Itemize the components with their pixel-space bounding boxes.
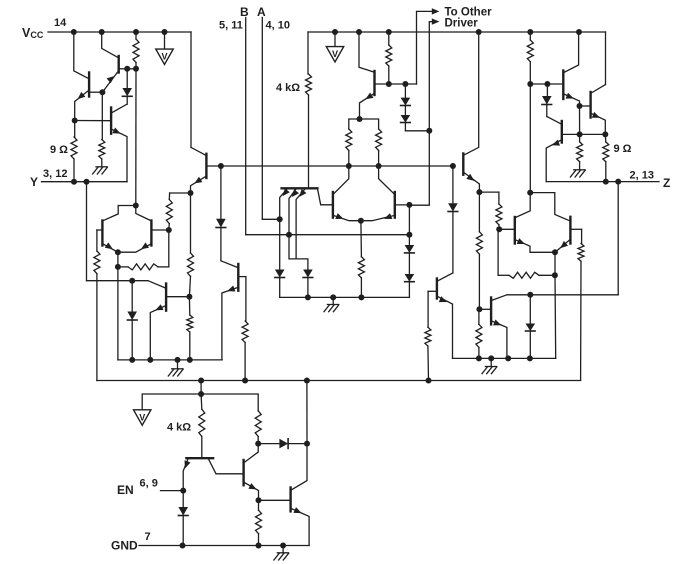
svg-text:4 kΩ: 4 kΩ (167, 422, 191, 434)
wire Y line (42, 181, 128, 183)
wire Q10 e3 (296, 189, 306, 259)
wire Q3 collector (112, 104, 127, 112)
wire Q8 collector (221, 261, 238, 268)
diode D14 (178, 490, 188, 545)
node M28 (527, 355, 533, 361)
wire Q19 emitter (591, 112, 605, 134)
node N2 (99, 89, 105, 95)
transistor Q3 (110, 108, 112, 134)
node M15 (358, 218, 364, 224)
wire Q20 emitter (546, 140, 561, 182)
resistor R4 (94, 230, 100, 381)
wire Q15 emitter (492, 320, 507, 359)
node E4 (256, 497, 262, 503)
node VCC-A (71, 29, 77, 35)
node A (257, 5, 266, 19)
wire R2 down (554, 275, 557, 358)
wire EN line (161, 490, 184, 492)
node Z-B (615, 179, 621, 185)
wire Q16 base (499, 228, 515, 230)
wire Q11 collector (334, 166, 349, 194)
wire Q2 collector (102, 32, 118, 58)
diode D7 (303, 270, 313, 298)
node M18 (305, 294, 311, 300)
node M26 (476, 355, 482, 361)
svg-text:V: V (139, 412, 145, 422)
wire R1 down (554, 252, 556, 275)
node Z-A (603, 179, 609, 185)
wire Q10 collector (317, 188, 333, 205)
node R5 (577, 103, 583, 109)
resistor R21 (527, 32, 533, 84)
wire A line (261, 18, 263, 220)
resistor R6 horizontal (118, 230, 169, 270)
node N6 (166, 227, 172, 233)
wire A to e1 (262, 218, 279, 220)
node M5 (527, 29, 533, 35)
diode D3 (216, 166, 226, 261)
transistor Q9 (373, 71, 375, 95)
svg-text:7: 7 (145, 531, 151, 543)
transistor Q12 (394, 192, 396, 218)
node M17 (406, 232, 412, 238)
wire left bottom rail (118, 359, 222, 361)
node M25 (476, 306, 482, 312)
transistor Q19 (589, 92, 591, 118)
resistor R23 9ohm (603, 134, 609, 181)
node C1 (198, 378, 204, 384)
wire Q2 emitter (102, 72, 118, 93)
wire Q7 emitter (191, 176, 206, 193)
wire R5 drop (579, 106, 581, 134)
svg-text:4 kΩ: 4 kΩ (276, 82, 300, 94)
wire Q6 emitter (150, 304, 166, 360)
wire 192 stub (479, 191, 499, 193)
node M3 (386, 29, 392, 35)
wire Q12 base (395, 204, 410, 206)
node M9 (376, 163, 382, 169)
wire VCC rail (48, 31, 191, 33)
wire mirror right (360, 119, 379, 129)
transistor Q4 (101, 221, 103, 246)
wire Q22 collector (244, 444, 258, 463)
node M16 (406, 202, 412, 208)
node VCC-B (99, 29, 105, 35)
wire mid bottom rail (280, 296, 410, 298)
transistor Q20 (561, 121, 563, 143)
node E2 (255, 441, 261, 447)
node N11 (175, 357, 181, 363)
node N9 (129, 278, 135, 284)
wire Q22 emitter (244, 483, 258, 501)
node R3 (527, 81, 533, 87)
node C2 (242, 378, 248, 384)
node N5 (115, 249, 121, 255)
node M4 (476, 29, 482, 35)
label R10 (276, 82, 300, 94)
wire Q15 collector (492, 295, 507, 301)
wire Q3 emitter (112, 128, 127, 182)
node R7 (577, 131, 583, 137)
pin 5, 11 (219, 20, 243, 32)
wire Q14 base (428, 291, 437, 327)
wire Q4 base (97, 229, 103, 231)
ground G2 (168, 360, 183, 376)
transistor Q7 (205, 154, 207, 178)
wire en top rail (142, 394, 258, 411)
node R0 (527, 190, 533, 196)
resistor R18 (476, 309, 482, 358)
resistor R11 (346, 129, 352, 166)
node G-A (180, 543, 186, 549)
node E1 (198, 391, 204, 397)
label R24 (167, 422, 191, 434)
transistor Q1 (88, 73, 90, 97)
node R4 (544, 81, 550, 87)
transistor Q2 (117, 56, 119, 73)
node G-B (256, 543, 262, 549)
pin 14 (54, 17, 67, 29)
diode D9 (405, 274, 415, 297)
wire C1 drop (200, 381, 202, 395)
wire Q7 collector (191, 147, 206, 155)
wire driver drop (409, 131, 429, 205)
wire left rail drop (190, 32, 192, 147)
resistor R12 (376, 129, 382, 166)
node R2 (552, 272, 558, 278)
wire Q20 collector (547, 117, 561, 125)
wire Q9 emitter (360, 93, 374, 120)
svg-text:EN: EN (117, 483, 134, 497)
node N8 (115, 264, 121, 270)
wire Q16 emitter (515, 238, 555, 252)
svg-text:Z: Z (663, 176, 670, 190)
node M19 (330, 294, 336, 300)
transistor Q11 (332, 192, 334, 218)
node C4 (426, 378, 432, 384)
transistor Q14 (436, 279, 438, 299)
wire Q3 base (75, 120, 111, 122)
wire Q23 collector (291, 444, 307, 490)
wire Q1 emitter (75, 91, 89, 121)
node M1 (332, 29, 338, 35)
node N4 (133, 203, 139, 209)
wire pair2 top (515, 193, 571, 222)
wire base rail 166 (206, 165, 453, 167)
transistor Q22 (242, 460, 244, 485)
wire Q23 base (259, 499, 291, 501)
node N10b (147, 357, 153, 363)
wire Q8 base (238, 277, 246, 321)
wire Q2 base (119, 68, 128, 70)
svg-text:9 Ω: 9 Ω (50, 144, 68, 156)
wire arrow2 (429, 18, 439, 130)
diode D12 (542, 84, 552, 117)
wire Q12 collector (379, 166, 395, 194)
resistor R3 (133, 32, 139, 69)
resistor R19 (578, 244, 584, 380)
wire mirror drop (135, 69, 137, 206)
wire Q6 collector (148, 281, 166, 288)
resistor R7 (188, 193, 194, 297)
svg-text:4, 10: 4, 10 (266, 20, 290, 32)
resistor R1 9ohm (71, 121, 77, 182)
resistor R9 (242, 321, 248, 381)
wire N3 stub (127, 68, 136, 70)
node Z (663, 176, 670, 190)
svg-text:V: V (332, 49, 338, 59)
node M22 (476, 189, 482, 195)
wire Q15 base (479, 308, 491, 310)
resistor R10 4k (306, 32, 312, 188)
wire Q9 base (375, 83, 417, 85)
pin 3, 12 (43, 168, 67, 180)
diode D6 (275, 219, 285, 297)
node N12 (218, 163, 224, 169)
wire pair top (103, 206, 151, 221)
node N10c (187, 357, 193, 363)
node M24 (496, 226, 502, 232)
wire Q17 base (570, 229, 581, 243)
node B (240, 5, 249, 19)
node N3a (124, 66, 130, 72)
node EN (117, 483, 134, 497)
wire arrow1 (417, 8, 440, 84)
power symbol V1 (156, 49, 173, 64)
pin 7 (145, 531, 151, 543)
wire R5 to N7 (170, 192, 191, 194)
diode D11 (526, 295, 536, 359)
svg-text:2, 13: 2, 13 (630, 170, 654, 182)
wire VCC to triangle (164, 32, 166, 49)
diode D2 (127, 281, 137, 360)
node M7 (357, 116, 363, 122)
diode D13 (279, 439, 307, 449)
wire Q6 base (166, 296, 189, 298)
diode D1 (122, 69, 132, 104)
transistor Q23 (289, 488, 291, 512)
wire Z line (546, 181, 659, 183)
wire Q21 emitter (183, 459, 190, 491)
transistor Q6 (165, 284, 167, 311)
wire Q5 emitter (118, 242, 151, 252)
wire Q18 emitter (564, 93, 580, 106)
svg-text:V: V (161, 52, 167, 62)
transistor Q18 (562, 71, 564, 100)
transistor Q15 (490, 298, 492, 325)
wire Q10 e2 (289, 189, 299, 235)
wire Q13 collector (464, 32, 479, 155)
transistor Q8 (237, 264, 239, 291)
svg-text:9 Ω: 9 Ω (614, 143, 632, 155)
resistor R26 (256, 500, 262, 545)
wire 84 rail (530, 83, 562, 85)
ground G5 (570, 170, 585, 177)
wire Q20 base (562, 133, 606, 135)
node R1 (552, 249, 558, 255)
wire Q13 emitter (464, 173, 480, 193)
wire Q12 emitter (361, 213, 394, 221)
resistor R25 (255, 411, 261, 444)
node N9b (129, 357, 135, 363)
transistor Q13 (462, 154, 464, 175)
label Driver (445, 18, 479, 30)
ground G3 (324, 297, 339, 311)
svg-text:6, 9: 6, 9 (140, 478, 158, 490)
resistor R16 (496, 192, 502, 229)
diode D4 (401, 84, 411, 115)
svg-text:GND: GND (111, 539, 138, 553)
svg-text:5, 11: 5, 11 (219, 20, 243, 32)
node M14 (286, 232, 292, 238)
power symbol V3 (134, 410, 151, 425)
node E5 (180, 488, 186, 494)
node C3 (304, 378, 310, 384)
wire e2 jog (289, 235, 308, 270)
wire right rail drop (605, 32, 607, 85)
label R23 (614, 143, 632, 155)
wire Q23 emitter (291, 507, 309, 545)
transistor Q17 (569, 217, 571, 244)
wire Q1 collector (74, 32, 89, 79)
node M10 (386, 81, 392, 87)
node Y-A (71, 179, 77, 185)
resistor R22 to ground (577, 134, 583, 169)
node M20 (358, 294, 364, 300)
resistor R14 (358, 221, 364, 298)
diode D10 (448, 166, 458, 273)
wire diode link (258, 443, 279, 445)
resistor R15 (425, 327, 431, 380)
diode D5 (401, 115, 430, 131)
wire M1 to triangle (334, 32, 336, 46)
node M13 (277, 216, 283, 222)
resistor R2 to ground (99, 92, 105, 167)
wire Q1 base (89, 91, 102, 93)
wire pair emitter drop (117, 252, 119, 267)
node VCC-C (133, 29, 139, 35)
node N3b (133, 66, 139, 72)
wire Z drop (617, 182, 619, 295)
resistor R20 horizontal (498, 229, 555, 278)
svg-text:A: A (257, 5, 266, 19)
wire Q9 collector (359, 32, 374, 72)
node E3 (304, 441, 310, 447)
node Y-B (84, 179, 90, 185)
wire GND line (139, 545, 309, 547)
node M21 (450, 163, 456, 169)
ground G1 (93, 167, 108, 174)
node N1 (72, 118, 78, 124)
node M8 (346, 163, 352, 169)
wire C3 drop (306, 381, 308, 444)
wire Q10 e1 (280, 188, 290, 219)
node G-C (280, 543, 286, 549)
wire Q21 collector (209, 459, 244, 474)
resistor R8 (187, 297, 193, 360)
node M6 (576, 29, 582, 35)
wire Q5 base (151, 229, 168, 231)
wire Q18 collector (564, 32, 579, 73)
wire mirror left (349, 119, 360, 129)
node VCC-D (162, 29, 168, 35)
wire right bottom rail (453, 357, 556, 359)
node M12 (426, 128, 432, 134)
pin 4, 10 (266, 20, 290, 32)
wire Y drop (86, 182, 88, 281)
node N7 (188, 190, 194, 196)
svg-text:B: B (240, 5, 249, 19)
node M2 (356, 29, 362, 35)
resistor R5 (166, 193, 172, 230)
node M30 (488, 355, 494, 361)
node Y (30, 175, 38, 189)
wire Q4 emitter (103, 242, 118, 252)
transistor Q16 (514, 217, 516, 244)
pin 6, 9 (140, 478, 158, 490)
wire Q14 collector (438, 273, 453, 281)
wire B line (245, 18, 247, 235)
transistor Q10 (282, 187, 318, 189)
resistor R13 (386, 32, 392, 84)
wire Q19 base (580, 105, 591, 107)
svg-text:14: 14 (54, 17, 67, 29)
label To Other (445, 7, 493, 19)
wire B to e2 (246, 234, 410, 236)
wire N8 down (117, 267, 119, 360)
wire mid rail (308, 31, 606, 33)
transistor Q21 (186, 457, 213, 459)
svg-text:Y: Y (30, 175, 38, 189)
node VCC (22, 26, 44, 40)
label R1 (50, 144, 68, 156)
node M29 (505, 355, 511, 361)
resistor R17 (476, 192, 482, 309)
wire Y horizontal (87, 280, 149, 282)
node M11 (402, 81, 408, 87)
pin 2, 13 (630, 170, 654, 182)
power symbol V2 (326, 47, 343, 62)
wire Q17 emitter (555, 240, 570, 253)
wire common rail (97, 380, 581, 382)
wire Q8 emitter (222, 286, 238, 360)
ground G6 (274, 546, 289, 561)
node GND (111, 539, 138, 553)
wire R3 drop (529, 84, 531, 192)
node N10 (186, 294, 192, 300)
diode D8 (405, 235, 415, 274)
transistor Q5 (150, 221, 152, 246)
ground G4 (482, 358, 497, 373)
svg-text:3, 12: 3, 12 (43, 168, 67, 180)
node R6 (602, 131, 608, 137)
wire Q11 emitter (334, 213, 361, 221)
wire M16 down (408, 205, 410, 235)
svg-text:Driver: Driver (445, 18, 479, 30)
node M27 (527, 292, 533, 298)
wire Q19 collector (591, 85, 605, 94)
wire Q14 emitter (438, 296, 453, 358)
wire 295 rail (507, 294, 618, 296)
resistor R24 4k (199, 394, 205, 457)
